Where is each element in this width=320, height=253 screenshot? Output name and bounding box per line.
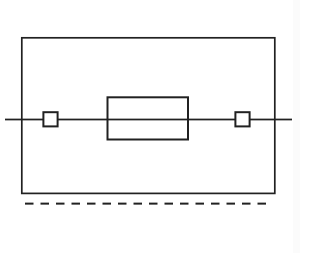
enclosure outline (terminal block body) (22, 38, 275, 194)
wire (through conductor) (5, 119, 292, 121)
terminal clamp left (43, 112, 57, 126)
dashed marker line (mounting rail) (25, 203, 268, 205)
right edge shading (293, 0, 300, 253)
terminal clamp right (235, 112, 249, 126)
fuse F (rectangle with wire through) (108, 97, 189, 139)
